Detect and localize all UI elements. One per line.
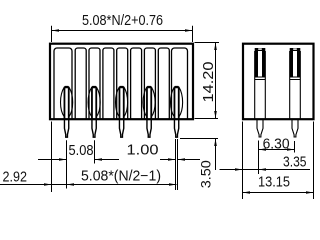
dim 6.30 extension lines xyxy=(259,141,295,175)
dim 14.20 extension lines xyxy=(195,43,220,119)
dim top width line xyxy=(52,30,193,32)
svg-text:3.50: 3.50 xyxy=(199,160,214,188)
slot S7 xyxy=(144,48,155,119)
svg-text:5.08*N/2+0.76: 5.08*N/2+0.76 xyxy=(82,13,163,29)
svg-text:5.08: 5.08 xyxy=(69,143,94,159)
pin A side lower xyxy=(257,120,263,137)
dim top width arrows xyxy=(52,29,60,32)
dim 2.92 tail xyxy=(0,184,67,186)
slot S1 wide xyxy=(54,48,72,119)
dim 13.15 extension lines xyxy=(243,122,314,200)
pin P4 front xyxy=(143,87,155,138)
dim pitch span arrows xyxy=(67,183,75,186)
dim 3.35 arrows xyxy=(235,168,243,171)
dim 1.00 extension lines xyxy=(176,139,178,190)
dim pitch span line xyxy=(67,184,177,186)
slot S8 xyxy=(158,48,169,119)
svg-text:6.30: 6.30 xyxy=(263,136,290,152)
svg-text:14.20: 14.20 xyxy=(201,62,217,103)
slot S6 xyxy=(131,48,142,119)
pin B side lower xyxy=(292,120,298,137)
dim 1.00 tails xyxy=(160,159,200,161)
svg-text:2.92: 2.92 xyxy=(3,169,28,185)
svg-text:13.15: 13.15 xyxy=(258,174,290,190)
dim 6.30 line xyxy=(259,149,295,151)
slot S9 wide xyxy=(172,48,188,119)
slot S5 xyxy=(117,48,128,119)
dim 3.50 arrow xyxy=(214,139,217,147)
pin B side tube xyxy=(290,48,301,119)
svg-text:1.00: 1.00 xyxy=(127,143,159,159)
svg-text:5.08*(N/2−1): 5.08*(N/2−1) xyxy=(81,169,161,185)
body front view outline xyxy=(50,44,193,120)
dim 13.15 line xyxy=(243,192,314,194)
slot S2 xyxy=(75,48,86,119)
dim 1.00 arrows xyxy=(168,158,176,161)
dim 3.50 extension line xyxy=(180,138,218,140)
pin P2 front xyxy=(88,87,100,138)
slot S4 xyxy=(103,48,114,119)
body side view outline xyxy=(243,44,314,120)
pin A side tube xyxy=(255,48,266,119)
dim 13.15 arrows xyxy=(243,191,251,194)
svg-text:3.35: 3.35 xyxy=(283,154,307,170)
dim 2.92 arrow xyxy=(44,183,52,186)
dim 6.30 arrows xyxy=(259,148,267,151)
dim 3.50 tail xyxy=(215,139,217,171)
dim 3.35 line xyxy=(220,169,311,171)
pin P3 front xyxy=(116,87,128,138)
slot S3 xyxy=(89,48,100,119)
dim 2.92 extension line xyxy=(51,122,53,193)
pin P1 front xyxy=(61,87,73,138)
pin P5 front xyxy=(171,87,183,138)
dim 14.20 arrows xyxy=(214,43,217,51)
dim top width extension lines xyxy=(52,26,193,42)
dim 5.08 tails xyxy=(38,159,119,161)
dim 14.20 line xyxy=(215,43,217,119)
dim 5.08 arrows xyxy=(59,158,67,161)
dim 5.08 extension lines xyxy=(67,140,95,188)
